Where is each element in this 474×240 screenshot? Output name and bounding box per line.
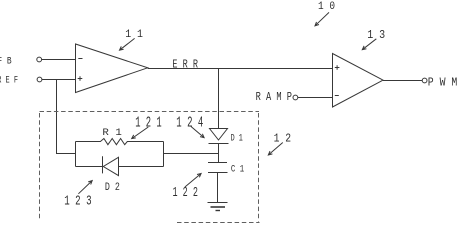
label 123 with leader arrow to diode D2 <box>64 181 92 210</box>
ground symbol <box>208 203 228 211</box>
svg-text:1 3: 1 3 <box>367 28 385 42</box>
resistor R1 (top branch of loop, with zigzag) <box>76 127 164 145</box>
dashed box of network 12: bottom border (right part) <box>177 222 260 224</box>
svg-text:P W M: P W M <box>428 76 458 90</box>
wire RAMP to op-amp 13 - input <box>298 97 333 99</box>
capacitor C1 <box>208 163 244 176</box>
label 13 with leader arrow to op-amp 13 <box>362 28 385 50</box>
input terminal FB <box>0 56 42 67</box>
svg-text:C 1: C 1 <box>231 165 244 176</box>
output terminal PWM <box>422 76 457 90</box>
label 11 with leader arrow to op-amp 11 <box>120 29 144 50</box>
svg-text:D 1: D 1 <box>231 134 243 145</box>
label 121 with leader arrow to resistor loop <box>132 115 162 138</box>
loop rectangle right side <box>163 142 165 167</box>
wire REF branch down into network 12 <box>57 80 76 154</box>
op-amp 11 (error amplifier) <box>76 44 148 93</box>
input terminal REF <box>0 74 42 86</box>
svg-text:R A M P: R A M P <box>256 90 292 104</box>
wire ERR: op-amp 11 output to op-amp 13 + input <box>148 68 332 70</box>
label 12 with leader arrow to dashed box <box>268 132 291 155</box>
wire op-amp 13 output to PWM terminal <box>383 80 422 82</box>
label 122 with leader arrow to capacitor C1 <box>173 174 202 202</box>
op-amp 13 (PWM comparator) <box>333 54 384 108</box>
svg-text:E R R: E R R <box>172 58 198 72</box>
wire C1 to ground <box>217 173 219 203</box>
dashed box of network 12: left border <box>39 113 41 219</box>
svg-text:D 2: D 2 <box>105 182 120 194</box>
diode D1 (pointing down) <box>209 129 243 145</box>
dashed box of network 12: top border <box>40 111 260 113</box>
svg-text:1 2 3: 1 2 3 <box>64 194 91 209</box>
loop rectangle left side <box>75 142 77 167</box>
svg-text:R 1: R 1 <box>102 127 121 139</box>
label 10 with leader arrow (whole circuit) <box>315 1 335 26</box>
svg-text:1 2 2: 1 2 2 <box>173 185 198 201</box>
svg-text:1 0: 1 0 <box>318 1 335 13</box>
svg-text:1 2 4: 1 2 4 <box>176 115 203 131</box>
wire D1 cathode to capacitor C1 <box>218 144 220 163</box>
wire FB to op-amp 11 inverting input <box>42 59 76 61</box>
wire ERR branch down to diode D1 <box>218 69 220 129</box>
wire loop right side to D1/C1 node <box>164 153 219 155</box>
svg-text:1 2 1: 1 2 1 <box>135 115 162 131</box>
wire REF to op-amp 11 non-inverting input <box>42 79 76 81</box>
input terminal RAMP <box>256 90 298 104</box>
label 124 with leader arrow to diode D1 <box>176 115 204 137</box>
svg-text:F B: F B <box>0 56 12 67</box>
svg-text:R E F: R E F <box>0 74 18 86</box>
loop rectangle bottom wires around diode D2 <box>76 166 164 168</box>
diode D2 (anode right, cathode bar left) <box>103 156 120 194</box>
dashed box of network 12: right border <box>258 113 260 222</box>
